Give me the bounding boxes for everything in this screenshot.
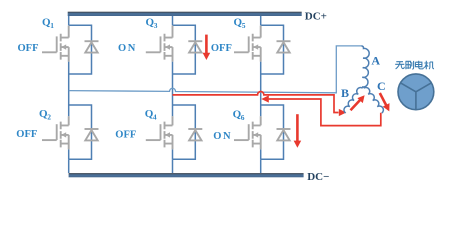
node phase A wire to winding A (hops over Q3/Q4 junction) (69, 46, 362, 93)
svg-text:4: 4 (153, 112, 157, 121)
svg-text:ON: ON (118, 43, 137, 54)
diode D2 (85, 129, 99, 140)
inductor winding B (344, 88, 363, 113)
transistor Q2 (42, 116, 69, 149)
transistor Q6 (234, 116, 261, 149)
svg-text:3: 3 (154, 21, 158, 30)
char 刷 (406, 61, 414, 69)
arrow red current down through winding C (380, 93, 387, 106)
inductor winding A (362, 46, 370, 87)
transistor Q1 (42, 26, 69, 62)
arrow red into winding B (339, 109, 347, 116)
wire Q5 drain drop from DC+ (260, 16, 262, 25)
svg-text:OFF: OFF (211, 43, 232, 54)
diode D3 (188, 41, 202, 52)
inductor winding C (364, 87, 384, 113)
DC+ rail (68, 12, 302, 16)
svg-text:DC−: DC− (307, 171, 329, 183)
svg-text:OFF: OFF (18, 43, 39, 54)
wire Q3 cell box (173, 25, 196, 74)
wire Q6 source drop to DC- (260, 159, 262, 173)
wire Q4 cell box (173, 105, 196, 159)
svg-text:OFF: OFF (16, 129, 37, 140)
svg-text:DC+: DC+ (305, 11, 327, 23)
char 电 (415, 61, 423, 69)
svg-text:1: 1 (50, 21, 54, 30)
arrow red current up through winding B (351, 99, 362, 111)
DC- rail (69, 173, 304, 177)
diode D6 (277, 129, 291, 140)
svg-text:OFF: OFF (115, 129, 136, 140)
motor icon (398, 74, 434, 110)
wire red current return path from winding C to Q6 (269, 99, 381, 126)
svg-text:A: A (371, 54, 380, 68)
wire Q4 phase drop (Q3 source to Q4 drain) (172, 74, 174, 116)
arrow red into Q6 drain node (261, 95, 269, 102)
svg-text:5: 5 (242, 21, 246, 30)
transistor Q5 (234, 26, 261, 62)
wire Q3 drain drop from DC+ (172, 16, 174, 25)
char 无 (395, 62, 404, 69)
diode D4 (188, 129, 202, 140)
wire Q6 cell box (261, 105, 284, 159)
wire red current path through phase B (hops over Q5/Q6 junction) (173, 92, 339, 113)
wire Q2 source drop to DC- (68, 159, 70, 173)
svg-text:2: 2 (47, 112, 51, 121)
char 机 (424, 61, 434, 70)
svg-text:C: C (377, 79, 386, 93)
wire Q6 phase drop (Q5 source to Q6 drain) (260, 74, 262, 116)
wire Q2 cell box (69, 105, 92, 159)
wire Q1 cell box (69, 25, 92, 74)
wire Q2 phase drop (Q1 source to Q2 drain) (68, 74, 70, 116)
arrow red current down through Q3 (205, 35, 208, 54)
svg-text:B: B (341, 86, 349, 100)
transistor Q3 (146, 26, 173, 62)
arrow red current down through Q6 (296, 114, 299, 141)
diode D1 (85, 41, 99, 52)
wire Q1 drain drop from DC+ (68, 16, 70, 25)
wire Q5 cell box (261, 25, 284, 74)
label 无刷电机 (brushless motor), hand-drawn glyphs (395, 61, 434, 70)
svg-text:6: 6 (241, 113, 245, 122)
svg-text:ON: ON (213, 131, 232, 142)
diode D5 (277, 41, 291, 52)
transistor Q4 (146, 116, 173, 149)
wire Q4 source drop to DC- (172, 159, 174, 173)
